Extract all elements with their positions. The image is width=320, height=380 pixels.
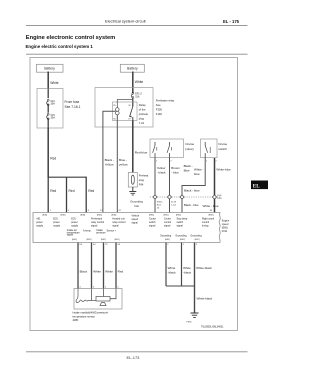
switch S1b [167, 142, 171, 158]
svg-text:EL-173: EL-173 [127, 355, 141, 360]
svg-text:(E62): (E62) [72, 239, 77, 241]
connector joint J1 [153, 195, 157, 199]
svg-text:(E66): (E66) [176, 214, 181, 216]
svg-text:Grounding: Grounding [190, 235, 202, 238]
wire red branch 3 [85, 177, 87, 213]
svg-text:Black - blue: Black - blue [184, 203, 199, 207]
footer rule [26, 351, 248, 353]
fuse box FB1 [37, 89, 63, 129]
svg-text:White-blue: White-blue [216, 168, 231, 172]
connector joint J4 [212, 195, 216, 199]
wire ECU ground 2, White-black [181, 243, 183, 287]
svg-text:B-78: B-78 [171, 202, 176, 204]
label Brown-blue [171, 166, 180, 175]
svg-text:White: White [168, 266, 176, 270]
svg-text:bolt: bolt [134, 204, 139, 208]
pin numbers under cruise boxes [156, 161, 218, 163]
svg-text:White: White [93, 270, 101, 274]
svg-text:Cruise: Cruise [185, 142, 194, 146]
label B-78 1-64 below J2 [171, 202, 176, 207]
svg-text:Engine electronic control syst: Engine electronic control system [26, 35, 115, 41]
svg-text:(E62): (E62) [101, 239, 106, 241]
svg-text:EL: EL [253, 184, 260, 190]
svg-text:White: White [50, 81, 59, 85]
wire S2a left pin L-shape, Black-blue [182, 158, 205, 195]
ECU pin text ECU power supply 2 [71, 218, 79, 228]
wire ECU ground 1, White-black [165, 243, 167, 287]
svg-text:30A: 30A [51, 103, 56, 106]
wire inside fuse box [47, 89, 49, 99]
ECU bottom text sensor power [107, 230, 117, 233]
diaphragm symbol [100, 303, 106, 306]
svg-text:-black: -black [168, 271, 177, 275]
svg-text:T6L0505L-E6L0405L: T6L0505L-E6L0405L [201, 326, 224, 329]
svg-text:preheat: preheat [139, 112, 148, 116]
relay note right of box [156, 99, 175, 117]
ECU bottom text pressure sensor signal [83, 229, 106, 235]
svg-text:(E62): (E62) [86, 239, 91, 241]
relay coil [116, 108, 120, 115]
wire S1b down, Brown-blue [169, 158, 171, 195]
subsection title [26, 44, 94, 49]
wire battery B2 down, White [132, 72, 134, 94]
ECU bottom text intake air temperature signal [67, 229, 81, 237]
label Black-Blue [184, 164, 193, 173]
ECU pin text cruise switch signal 2 [164, 218, 172, 228]
switch S2a [205, 142, 210, 158]
battery B1 [37, 64, 64, 72]
svg-text:Black -: Black - [184, 164, 193, 168]
wire fuse to relay switch [132, 98, 134, 106]
svg-text:supply: supply [53, 224, 61, 227]
wire sensor internal mid [103, 289, 105, 297]
wire battery B1 to fuse box, White [47, 72, 49, 89]
svg-text:Blue: Blue [184, 169, 190, 173]
svg-text:(E46): (E46) [60, 214, 65, 216]
fuse F15 [47, 113, 56, 119]
svg-text:(E66): (E66) [149, 214, 154, 216]
svg-text:White: White [135, 80, 144, 84]
svg-text:Red: Red [50, 189, 56, 193]
svg-text:signal: signal [112, 224, 119, 227]
wire coil bottom terminal down [116, 115, 118, 213]
svg-text:Black - blue: Black - blue [184, 188, 200, 192]
svg-text:switch: switch [218, 147, 227, 151]
junction split bar [48, 176, 87, 178]
wire ECU to sensor pin1, Red [115, 243, 117, 289]
svg-text:- black: - black [157, 171, 166, 175]
ECU pin text stop lamp switch signal [177, 218, 188, 228]
wire sensor internal left [91, 289, 93, 301]
svg-text:blue: blue [194, 172, 200, 176]
svg-text:White: White [183, 266, 191, 270]
wire relay switch output down, Red-blue [132, 121, 134, 173]
sensor element rectangle [96, 297, 110, 302]
ECU pin text cruise switch signal 1 [149, 218, 157, 228]
svg-text:supply: supply [71, 224, 79, 227]
label Blue-yellow [119, 158, 128, 167]
svg-text:signal: signal [177, 224, 184, 227]
svg-text:signal: signal [67, 234, 74, 237]
label Cruise switch [218, 142, 227, 151]
svg-text:Preheat: Preheat [139, 174, 149, 178]
svg-text:Intake manifold/4WD pressure/: Intake manifold/4WD pressure/ [73, 310, 109, 314]
ground label Grounding bolt [130, 199, 143, 208]
ECU pin text right crank control timing [202, 218, 215, 228]
label Black-Yellow [105, 158, 115, 167]
svg-text:(E66): (E66) [208, 214, 213, 216]
label Yellow-black [157, 166, 166, 175]
svg-text:F305: F305 [187, 322, 193, 324]
svg-text:Relay: Relay [139, 103, 147, 107]
svg-text:Brown: Brown [171, 166, 180, 170]
svg-text:Red: Red [50, 157, 56, 161]
svg-text:Engine electric control system: Engine electric control system 1 [26, 44, 94, 49]
ECU pin text +B1 power supply [36, 218, 44, 228]
wire red branch 1 [47, 177, 49, 212]
svg-text:F192: F192 [156, 112, 163, 116]
svg-text:Red-blue: Red-blue [135, 151, 148, 155]
preheat plug label [139, 174, 149, 187]
header running title [105, 19, 147, 24]
svg-text:(E62): (E62) [165, 239, 170, 241]
battery B2 [120, 64, 144, 72]
wire ECU to sensor pin3, White [91, 243, 93, 289]
svg-text:From fuse: From fuse [65, 100, 80, 104]
svg-text:yellow: yellow [119, 163, 128, 167]
svg-text:Battery: Battery [127, 67, 138, 71]
svg-text:Grounding: Grounding [160, 235, 172, 238]
svg-text:EL - 175: EL - 175 [223, 19, 240, 24]
svg-text:Red: Red [69, 189, 75, 193]
header rule [26, 25, 248, 27]
svg-text:(E62): (E62) [180, 239, 185, 241]
svg-text:Red: Red [118, 270, 124, 274]
label White-blue (inner) [194, 168, 204, 177]
svg-text:Blue -: Blue - [119, 158, 127, 162]
svg-text:plug: plug [139, 178, 145, 182]
svg-text:White-black: White-black [197, 297, 213, 301]
svg-text:(E46): (E46) [80, 214, 85, 216]
svg-text:4WD: 4WD [73, 318, 79, 322]
wire coil left terminal down [103, 111, 116, 212]
svg-text:signal: signal [132, 221, 139, 224]
svg-text:A-temp: A-temp [83, 230, 91, 233]
wire S1a down, Yellow-black [154, 158, 156, 195]
relay box (outer) [95, 88, 153, 128]
svg-text:Yellow: Yellow [157, 166, 166, 170]
section title [26, 35, 115, 41]
ground G2 [187, 313, 199, 324]
thermistor squiggle [76, 289, 92, 303]
note right of torn edge [222, 220, 230, 233]
svg-text:Grounding: Grounding [130, 199, 143, 203]
svg-text:signal: signal [164, 224, 171, 227]
svg-text:(E66): (E66) [163, 214, 168, 216]
label White-black 1 [168, 266, 177, 275]
svg-text:of the: of the [139, 108, 146, 112]
svg-text:supply: supply [36, 224, 44, 227]
svg-text:White -: White - [194, 168, 204, 172]
svg-text:Battery: Battery [44, 67, 55, 71]
note From fuse box [65, 100, 81, 109]
svg-text:Grounding: Grounding [175, 235, 187, 238]
ground G1 [129, 192, 136, 196]
svg-text:plug: plug [139, 116, 145, 120]
switch S1a [153, 142, 157, 158]
diagram frame [30, 58, 238, 331]
svg-text:Cruise: Cruise [218, 142, 227, 146]
svg-text:(E46): (E46) [42, 214, 47, 216]
svg-text:White-: White- [157, 201, 164, 204]
svg-text:Black -: Black - [105, 158, 114, 162]
preheat plug P1 [128, 173, 137, 188]
svg-text:Red: Red [88, 189, 94, 193]
svg-text:White: White [105, 270, 113, 274]
ECU pin text preheat relay control [91, 218, 104, 228]
wire S2 right pin down, White-blue [214, 158, 216, 195]
svg-text:timing: timing [202, 224, 209, 227]
ECU pin text ECU power supply [53, 218, 61, 228]
wire ECU to sensor pin4, Black [77, 243, 79, 289]
svg-text:(E46): (E46) [97, 214, 102, 216]
svg-text:F64: F64 [139, 183, 144, 187]
label White-Red F64 below J1 [157, 201, 164, 210]
header page number EL-175 [223, 19, 240, 24]
pressure sensor box U2 [74, 289, 122, 310]
connector joint J2 [167, 195, 171, 199]
svg-text:White-black: White-black [196, 266, 212, 270]
svg-text:(slow): (slow) [185, 147, 193, 151]
svg-text:Sensor +: Sensor + [107, 230, 117, 233]
relay annotation inside box [139, 103, 148, 125]
svg-text:See 7.16.1: See 7.16.1 [65, 105, 81, 109]
connector joint J3 [180, 195, 184, 199]
svg-text:(E62): (E62) [114, 239, 119, 241]
wire ECU to sensor pin2, White [103, 243, 105, 289]
label Cruise (slow) [185, 142, 194, 151]
svg-text:See: See [156, 103, 161, 107]
wire plug to ground [132, 187, 134, 192]
svg-text:(E46): (E46) [111, 214, 116, 216]
svg-text:Electrical system-circuit: Electrical system-circuit [105, 19, 147, 24]
svg-text:30A: 30A [51, 117, 56, 120]
wire fuse box to split node, Red [47, 128, 49, 177]
cruise control switch box S1 [150, 139, 184, 158]
svg-text:7.24: 7.24 [139, 121, 145, 125]
svg-text:F191: F191 [222, 230, 228, 233]
svg-text:1-64: 1-64 [171, 205, 176, 207]
svg-text:F305: F305 [156, 108, 163, 112]
subsection rule [26, 53, 248, 55]
wire sensor internal right [110, 289, 116, 299]
ECU pin text heater unit relay control [112, 218, 125, 228]
svg-text:(E62): (E62) [194, 239, 199, 241]
cruise switch box S2 [201, 139, 218, 158]
svg-text:White - blue: White - blue [203, 204, 219, 208]
svg-text:Yellow: Yellow [105, 163, 115, 167]
wire coil feed from fuse branch [117, 100, 133, 108]
svg-text:Preheater relay: Preheater relay [156, 99, 175, 103]
relay switch blade [130, 107, 133, 121]
sensor caption [73, 310, 109, 322]
svg-text:temperature sensor: temperature sensor [73, 314, 96, 318]
EL section tab [251, 181, 268, 190]
ground junction bar [166, 285, 195, 287]
svg-text:-black: -black [183, 271, 192, 275]
wire ECU ground 3, White-black [194, 243, 196, 314]
fuse F10 [47, 99, 56, 105]
dashed connector line [150, 196, 222, 198]
ECU internal text vehicle speed [132, 215, 140, 225]
wire red branch 2 [66, 177, 68, 212]
svg-text:signal: signal [149, 224, 156, 227]
svg-text:- blue: - blue [171, 171, 179, 175]
svg-text:pressure: pressure [96, 231, 106, 234]
node label E-66 F305 [217, 195, 222, 200]
footer page number [127, 355, 141, 360]
fuse EF1-2 [131, 92, 142, 98]
label White-black 2 [183, 266, 192, 275]
svg-text:signal: signal [91, 224, 98, 227]
ECU U1 (engine control unit box, torn right edge) [33, 213, 220, 243]
svg-text:Black: Black [80, 270, 88, 274]
wire squiggle to rect [92, 300, 97, 302]
relay K1 (inner box) [113, 102, 138, 121]
svg-text:15A: 15A [135, 95, 140, 98]
